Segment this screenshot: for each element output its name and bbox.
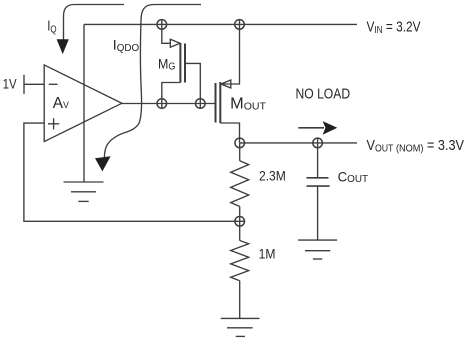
node divider feedback <box>235 217 245 227</box>
svg-text:IQ: IQ <box>47 19 57 36</box>
ground divider bottom <box>221 318 260 336</box>
op-amp U1 Av <box>44 65 122 142</box>
wire op-amp output to MOUT gate <box>122 103 216 105</box>
ground COUT <box>298 240 337 259</box>
svg-text:NO LOAD: NO LOAD <box>296 87 351 103</box>
node top rail MG <box>157 20 167 30</box>
wire feedback to non-inverting input <box>24 123 245 221</box>
resistor R2 1M <box>231 241 249 281</box>
svg-text:VIN = 3.2V: VIN = 3.2V <box>367 19 421 36</box>
svg-text:MG: MG <box>158 57 175 73</box>
transistor MG <box>162 20 201 109</box>
wire op-amp supply drop <box>83 24 85 181</box>
ground op-amp <box>64 182 104 201</box>
node top rail MOUT <box>235 20 245 30</box>
svg-text:VOUT (NOM) = 3.3V: VOUT (NOM) = 3.3V <box>367 138 465 155</box>
current arrow IQ <box>57 5 124 55</box>
wire R1 to node <box>239 206 241 240</box>
svg-text:1V: 1V <box>3 76 17 91</box>
svg-text:2.3M: 2.3M <box>259 168 286 183</box>
load current arrow <box>298 121 337 135</box>
1V reference source <box>23 75 25 94</box>
svg-text:AV: AV <box>53 95 69 112</box>
node gate wire MG gate <box>196 99 206 109</box>
wire output rail to VOUT <box>240 142 357 144</box>
resistor R1 2.3M <box>231 161 249 207</box>
wire divider chain <box>239 143 241 161</box>
current arrow IQDO <box>95 5 201 172</box>
transistor MOUT <box>216 20 240 143</box>
node gate wire MG drain <box>157 99 167 109</box>
node output rail drain <box>235 138 245 148</box>
wire R2 to ground <box>239 281 241 319</box>
node output rail COUT <box>313 138 323 148</box>
wire 1V to inverting input <box>24 83 44 85</box>
svg-text:MOUT: MOUT <box>230 96 266 113</box>
wire top supply rail to VIN <box>84 23 357 25</box>
svg-text:IQDO: IQDO <box>113 37 140 54</box>
capacitor COUT <box>307 138 330 240</box>
svg-text:COUT: COUT <box>338 168 369 185</box>
svg-text:1M: 1M <box>259 246 276 261</box>
